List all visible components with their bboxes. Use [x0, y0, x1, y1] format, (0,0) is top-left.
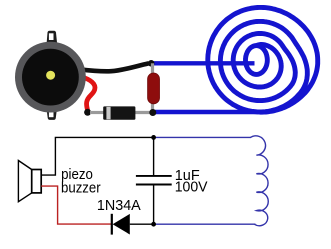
- capacitor C1 pictorial (maroon body): [148, 73, 160, 104]
- wire: gray lead right of diode: [133, 111, 152, 114]
- node: bottom junction dot: [149, 109, 156, 116]
- wire: black wire from buzzer to top junction: [79, 64, 148, 72]
- wire: black segment diode to bottom junction: [130, 223, 154, 225]
- wire: navy bottom rail to coil: [154, 223, 256, 225]
- piezo buzzer pictorial: black disc: [22, 49, 79, 106]
- node: red wire end dot: [84, 109, 91, 116]
- wire: red wire from buzzer to bottom node: [81, 77, 95, 111]
- wire: gray lead left of diode: [90, 111, 104, 114]
- piezo buzzer pictorial: bottom mounting tab: [46, 108, 57, 120]
- wire: blue lead from top junction to coil center: [153, 61, 255, 65]
- diode D1 schematic: cathode bar: [111, 214, 113, 235]
- diode D1 schematic: triangle pointing left: [113, 214, 130, 235]
- capacitor C1 schematic: top lead: [153, 137, 155, 175]
- diode D1 pictorial (black body): [103, 106, 135, 119]
- svg-text:100V: 100V: [175, 179, 208, 195]
- node: top junction dot: [148, 60, 155, 67]
- diode D1 band: [106, 107, 110, 119]
- capacitor C1 schematic: bottom lead: [153, 185, 155, 224]
- wire: gray lead top of capacitor: [151, 63, 154, 76]
- schematic: speaker cone: [18, 161, 31, 202]
- wire: blue lead bottom rail to coil outer turn: [155, 110, 263, 114]
- svg-text:1N34A: 1N34A: [97, 198, 141, 214]
- wire: top rail navy segment: [154, 136, 251, 138]
- svg-text:buzzer: buzzer: [61, 180, 101, 197]
- node: schematic bottom junction: [151, 222, 156, 227]
- inductor L1 pictorial spiral coil: [208, 7, 318, 112]
- inductor L1 schematic coil: [251, 136, 269, 226]
- piezo buzzer pictorial: gray rim: [15, 42, 86, 113]
- piezo buzzer pictorial: top mounting tab: [47, 31, 58, 44]
- node: schematic top junction: [151, 135, 156, 140]
- wire: red speaker bottom lead down and right to diode: [41, 186, 111, 224]
- capacitor C1 schematic: top plate: [136, 175, 172, 177]
- schematic: speaker driver rectangle: [32, 170, 42, 193]
- capacitor C1 schematic: bottom plate: [136, 184, 172, 186]
- piezo buzzer pictorial: yellow center dot: [46, 71, 55, 80]
- wire: gray lead bottom of capacitor: [151, 103, 154, 113]
- wire: speaker top lead + left vertical + top rail (black): [41, 137, 153, 175]
